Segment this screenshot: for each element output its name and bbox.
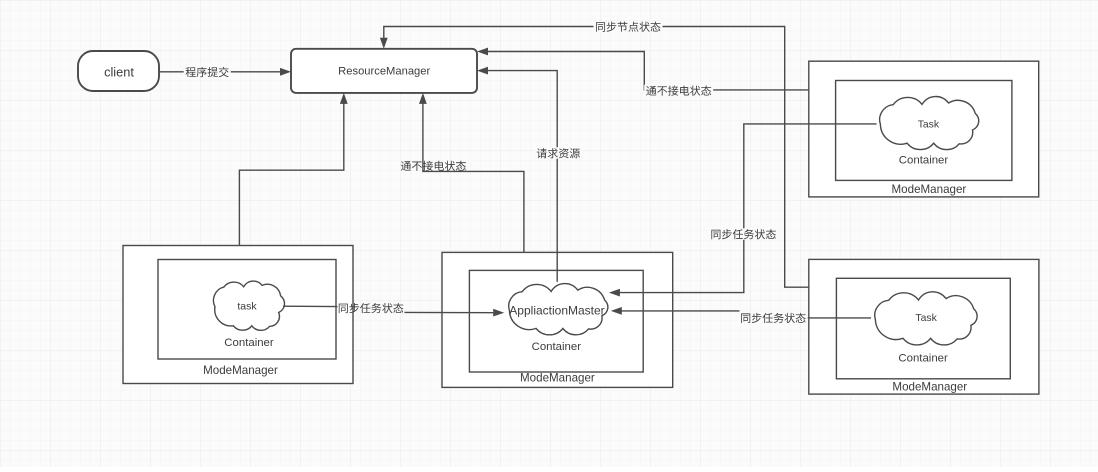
node Container1 box [158,260,336,360]
svg-text:Task: Task [918,119,940,130]
cloud task [213,281,284,330]
wire client to ResourceManager [160,71,281,73]
wire Task2 to ApplicationMaster (sync task status) [619,124,877,293]
wire ApplicationMaster to ResourceManager (request resources) [487,71,557,282]
node NodeManager3 box [809,259,1039,394]
label 同步任务状态 left [339,303,404,313]
svg-text:ModeManager: ModeManager [203,364,278,377]
label 同步任务状态 middle [709,228,778,239]
svg-text:Container: Container [898,353,948,365]
wire task to ApplicationMaster (sync task status) [283,305,338,307]
svg-text:client: client [104,65,134,80]
node Container-center box [469,270,643,372]
svg-text:Container: Container [224,337,274,349]
svg-text:Task: Task [915,313,937,324]
cloud Task3 [875,292,977,345]
cloud Task2 [880,97,979,150]
wire NodeManager3 to ResourceManager (sync node status) [384,27,809,288]
cloud AppliactionMaster [509,284,608,335]
node client [78,51,159,91]
svg-text:ResourceManager: ResourceManager [338,66,430,78]
label 同步节点状态 [594,21,663,32]
wire NodeManager1 to ResourceManager [239,103,343,246]
svg-text:Container: Container [899,155,949,167]
node Container2 box [836,81,1012,181]
svg-text:Container: Container [532,341,582,353]
node NodeManager2 box [809,61,1039,197]
label 同步任务状态 right [739,312,808,323]
node ResourceManager [291,49,477,93]
svg-text:ModeManager: ModeManager [892,183,967,196]
label 程序提交 [184,66,231,77]
svg-text:ModeManager: ModeManager [892,380,967,393]
wire NodeManager-center to ResourceManager (heartbeat) [423,103,524,252]
node NodeManager1 box [123,246,353,384]
label 通不接电状态 center [401,161,466,171]
node NodeManager-center box [442,252,673,387]
wire NodeManager2 to ResourceManager (heartbeat) [487,52,809,90]
wire Task3 to ApplicationMaster (sync task status) [808,317,872,319]
svg-text:AppliactionMaster: AppliactionMaster [509,303,604,317]
svg-text:ModeManager: ModeManager [520,371,595,384]
svg-text:task: task [237,301,257,313]
node Container3 box [836,278,1010,379]
label 请求资源 [535,147,582,158]
label 通不接电状态 top right [644,85,713,96]
